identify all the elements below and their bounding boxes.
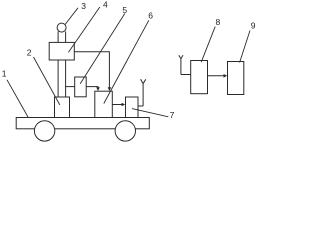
svg-text:8: 8 (216, 17, 221, 27)
leader line 3 (65, 8, 78, 25)
svg-text:9: 9 (251, 20, 256, 30)
leader line 8 (201, 27, 215, 63)
box 9 (228, 62, 244, 95)
box 8 (191, 61, 208, 94)
box 6 (95, 91, 113, 117)
box 2 (55, 97, 70, 118)
svg-text:7: 7 (170, 110, 175, 120)
box 4 (49, 42, 74, 60)
svg-text:3: 3 (81, 1, 86, 11)
wheel right (115, 121, 135, 141)
wire: box8 right arrow to box 9 (208, 75, 226, 77)
svg-text:4: 4 (103, 0, 108, 10)
leader line 7 (132, 109, 168, 117)
arrowhead into box6 top (from box4) (108, 87, 112, 91)
wire: box6 right arrow to box 7 (112, 104, 122, 106)
leader line 5 (80, 14, 125, 84)
wire: pole to box 5 left (66, 86, 75, 88)
box 5 (75, 77, 87, 97)
leader line 4 (68, 7, 99, 52)
arrowhead into box9 left (224, 74, 228, 78)
svg-text:5: 5 (122, 5, 127, 15)
node 3: circle atop pole (57, 23, 66, 32)
platform (trolley base 1) (16, 118, 149, 129)
wire: pole upper segment (circle 3 to box 4) (58, 32, 66, 43)
leader line 6 (104, 20, 149, 103)
arrowheads (96, 74, 227, 106)
antenna on box 8 (179, 55, 191, 74)
box 7 (126, 97, 139, 118)
leader line 9 (240, 31, 250, 63)
leader line 1 (7, 80, 28, 118)
wheel left (34, 121, 54, 141)
leader line 2 (34, 57, 60, 105)
svg-text:6: 6 (148, 11, 153, 21)
arrowhead into box6 top (from box5) (96, 87, 100, 91)
arrowhead into box7 left (122, 103, 126, 107)
wire: pole lower segment (box 4 to box 2) (58, 60, 66, 97)
antenna on box 7 (138, 79, 146, 106)
wire: box4 right to down-arrow into box 6 (74, 52, 109, 88)
svg-text:2: 2 (27, 47, 32, 57)
wire: box5 right to down-arrow into box 6 (86, 87, 98, 88)
svg-text:1: 1 (2, 69, 7, 79)
